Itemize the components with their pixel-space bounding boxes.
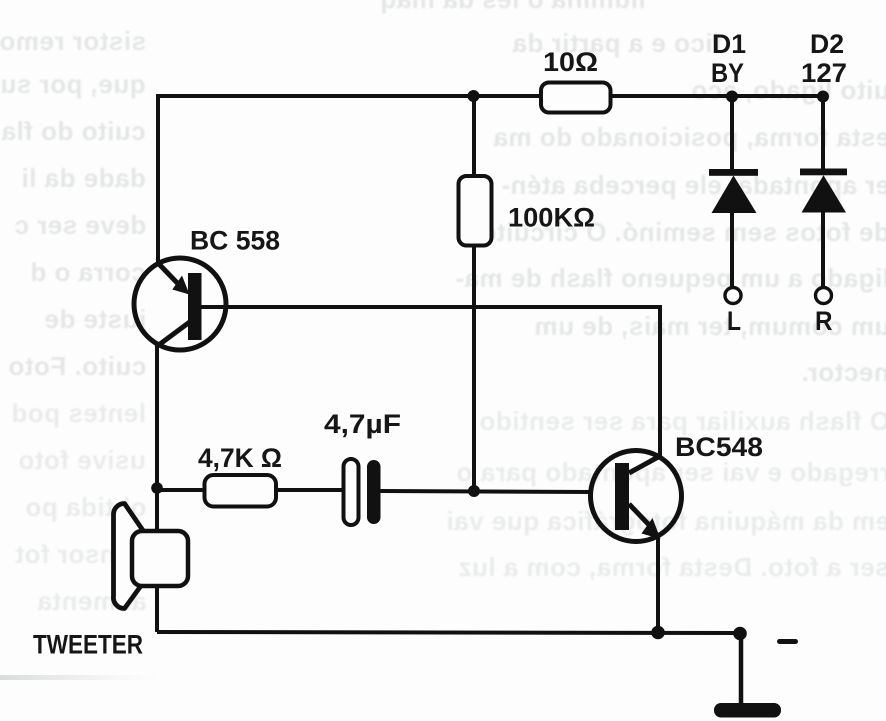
D2 anode triangle xyxy=(802,175,847,212)
wire: ground lead xyxy=(739,634,744,706)
Q1 base bar xyxy=(188,273,202,340)
D1 cathode bar xyxy=(709,169,758,176)
wire: 100K top lead from node A xyxy=(472,96,476,176)
transistor Q1 BC 558 (PNP) xyxy=(134,226,280,351)
node D: Q2 emitter to bottom rail junction xyxy=(651,626,665,640)
diode D1 BY127 xyxy=(709,29,758,336)
Q2 collector lead xyxy=(629,456,660,473)
transistor Q2 BC548 (NPN) xyxy=(591,432,764,542)
D2 cathode bar xyxy=(800,169,847,176)
C1 left plate (outlined) xyxy=(344,459,359,525)
svg-text:BC548: BC548 xyxy=(675,432,763,462)
wire: D1 anode lead xyxy=(730,213,734,287)
wire: D2 anode lead xyxy=(821,212,825,287)
wire: D2 cathode lead xyxy=(821,96,825,172)
Q2 emitter arrowhead (points out, NPN) xyxy=(642,518,661,539)
svg-text:127: 127 xyxy=(801,58,847,88)
wire: bottom ground rail xyxy=(157,632,740,633)
Q1 emitter lead (from top rail) xyxy=(158,263,184,290)
wire: Q1 base across to Q2 collector xyxy=(201,307,660,457)
svg-text:4,7K Ω: 4,7K Ω xyxy=(198,443,282,473)
svg-text:L: L xyxy=(727,306,741,336)
svg-text:10Ω: 10Ω xyxy=(543,47,598,77)
minus (negative supply) mark xyxy=(777,639,798,644)
node: D2 junction on top rail xyxy=(817,91,829,103)
speaker cone xyxy=(113,504,143,609)
node A: junction of top rail with 10-ohm resistor / 100K branch xyxy=(468,90,480,102)
svg-text:100KΩ: 100KΩ xyxy=(508,203,595,233)
svg-text:BY: BY xyxy=(711,58,744,88)
svg-text:4,7µF: 4,7µF xyxy=(324,409,401,439)
D1 anode triangle xyxy=(712,176,757,214)
svg-text:TWEETER: TWEETER xyxy=(33,630,143,660)
wire: Q2 emitter down to bottom rail xyxy=(656,537,660,633)
capacitor C1 4,7uF xyxy=(324,409,401,525)
Q1 emitter arrowhead (points into base, PNP) xyxy=(172,276,189,295)
terminal L (open circle) xyxy=(725,288,741,304)
Q1 body circle xyxy=(134,258,226,350)
resistor R2 100K ohm xyxy=(459,176,596,246)
wire: capacitor C1 to Q2 base through node B xyxy=(380,491,592,492)
diode D2 BY127 xyxy=(800,29,847,336)
wire: Q1 collector down to speaker node xyxy=(155,345,159,632)
C1 right plate (solid) xyxy=(367,460,381,524)
terminal R (open circle) xyxy=(816,288,832,304)
wire: node C to 4,7K resistor xyxy=(157,488,206,492)
speaker LS1 TWEETER xyxy=(33,504,188,660)
node E: ground branch junction on bottom rail xyxy=(733,627,747,641)
svg-text:D2: D2 xyxy=(810,29,844,59)
svg-text:D1: D1 xyxy=(712,29,746,59)
Q2 emitter lead xyxy=(629,504,652,528)
node C: junction of Q1 collector, speaker and 4,7K resistor xyxy=(151,482,163,494)
ground symbol xyxy=(714,703,781,718)
wire: 100K bottom lead down to node B xyxy=(472,245,476,491)
node: D1 junction on top rail xyxy=(726,91,738,103)
speaker driver box xyxy=(132,531,188,586)
resistor R1 10 ohm xyxy=(541,47,611,113)
Q2 base bar xyxy=(615,463,629,530)
wire: 4,7K resistor to capacitor C1 xyxy=(276,488,345,492)
svg-text:R: R xyxy=(815,306,833,336)
resistor R3 4,7K ohm xyxy=(198,443,282,507)
Q2 body circle xyxy=(591,451,682,542)
Q1 collector lead xyxy=(156,321,191,347)
wire: D1 cathode lead xyxy=(730,96,734,172)
node B: junction of 100K lead with cap-to-base wire xyxy=(468,485,480,497)
wire: top supply rail from Q1 emitter corner to D2 junction xyxy=(158,96,823,264)
svg-text:BC 558: BC 558 xyxy=(190,226,280,256)
